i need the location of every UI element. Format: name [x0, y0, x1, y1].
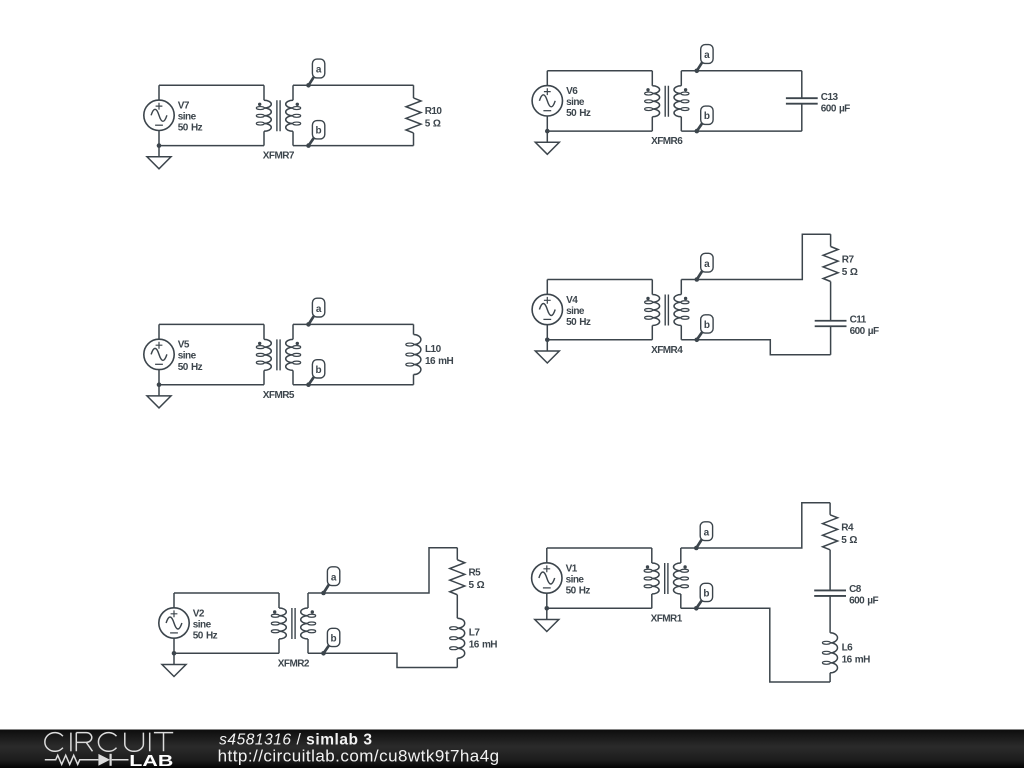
- svg-text:http://circuitlab.com/cu8wtk9t: http://circuitlab.com/cu8wtk9t7ha4g: [218, 746, 500, 765]
- svg-text:b: b: [331, 633, 337, 644]
- svg-text:5 Ω: 5 Ω: [425, 118, 441, 129]
- svg-text:LAB: LAB: [129, 753, 173, 768]
- svg-text:R5: R5: [469, 568, 482, 579]
- transformer XFMR6: [645, 71, 689, 147]
- wire: [413, 85, 415, 145]
- svg-text:V1: V1: [566, 563, 578, 574]
- svg-text:50 Hz: 50 Hz: [178, 123, 203, 134]
- wire: [308, 548, 457, 593]
- ground: [535, 129, 559, 155]
- svg-text:V7: V7: [178, 101, 190, 112]
- svg-text:R4: R4: [841, 523, 854, 534]
- inductor L6: [822, 633, 870, 673]
- resistor R7: [823, 247, 858, 282]
- node a flag: [694, 522, 713, 551]
- wire: [681, 503, 830, 548]
- transformer XFMR4: [645, 280, 689, 356]
- resistor R10: [406, 98, 442, 133]
- wire: [173, 593, 175, 653]
- svg-text:5 Ω: 5 Ω: [469, 580, 485, 591]
- node b flag: [306, 121, 325, 148]
- svg-text:L10: L10: [425, 344, 442, 355]
- ground: [147, 143, 171, 169]
- footer bar: [0, 730, 1024, 768]
- node a flag: [306, 59, 325, 88]
- wire: [829, 596, 831, 633]
- CircuitLab logo wordmark CIRCUIT: [45, 733, 173, 752]
- voltage source V7: [144, 100, 203, 134]
- svg-text:a: a: [316, 304, 322, 315]
- wire: [681, 340, 830, 355]
- resistor R4: [823, 515, 858, 550]
- wire: [456, 658, 458, 667]
- inductor L7: [450, 618, 498, 658]
- svg-text:R7: R7: [842, 254, 855, 265]
- svg-text:C8: C8: [849, 584, 862, 595]
- svg-text:V4: V4: [566, 295, 578, 306]
- wire: [547, 130, 652, 132]
- capacitor C11: [815, 315, 879, 338]
- svg-text:5 Ω: 5 Ω: [841, 535, 857, 546]
- ground: [147, 382, 171, 407]
- node b flag: [695, 315, 714, 342]
- wire: [308, 653, 457, 667]
- svg-text:5 Ω: 5 Ω: [842, 267, 858, 278]
- node b flag: [321, 628, 340, 655]
- wire: [830, 326, 832, 355]
- svg-text:50 Hz: 50 Hz: [566, 585, 591, 596]
- wire: [159, 145, 264, 147]
- wire: [681, 234, 830, 279]
- capacitor C8: [814, 584, 878, 607]
- svg-text:b: b: [704, 111, 710, 122]
- svg-text:b: b: [704, 320, 710, 331]
- node a flag: [321, 567, 340, 596]
- wire: [546, 71, 548, 131]
- node a flag: [695, 253, 714, 282]
- wire: [547, 279, 652, 281]
- svg-text:XFMR5: XFMR5: [263, 390, 295, 401]
- svg-text:sine: sine: [178, 112, 197, 123]
- wire: [174, 592, 279, 594]
- svg-text:L7: L7: [469, 628, 481, 639]
- voltage source V2: [159, 608, 218, 642]
- transformer XFMR7: [256, 85, 300, 161]
- svg-text:b: b: [316, 365, 322, 376]
- wire: [830, 234, 832, 246]
- svg-text:50 Hz: 50 Hz: [193, 630, 218, 641]
- svg-text:sine: sine: [566, 306, 585, 317]
- svg-text:a: a: [704, 527, 710, 538]
- svg-text:b: b: [703, 588, 709, 599]
- inductor L10: [406, 335, 454, 375]
- node a flag: [695, 45, 714, 74]
- transformer XFMR2: [271, 593, 315, 669]
- wire: [293, 85, 414, 145]
- svg-text:50 Hz: 50 Hz: [178, 362, 203, 373]
- svg-text:XFMR4: XFMR4: [651, 345, 683, 356]
- wire: [158, 324, 160, 384]
- svg-text:XFMR2: XFMR2: [278, 658, 310, 669]
- voltage source V5: [144, 339, 203, 373]
- wire: [547, 70, 652, 72]
- node b flag: [694, 583, 713, 610]
- wire: [293, 324, 414, 384]
- wire: [456, 595, 458, 618]
- svg-text:V6: V6: [566, 86, 578, 97]
- wire: [413, 324, 415, 384]
- wire: [829, 503, 831, 515]
- svg-text:sine: sine: [566, 574, 585, 585]
- wire: [546, 280, 548, 340]
- svg-text:XFMR1: XFMR1: [651, 613, 683, 624]
- svg-text:sine: sine: [566, 97, 585, 108]
- transformer XFMR5: [256, 324, 300, 400]
- voltage source V1: [532, 563, 591, 597]
- svg-text:600 µF: 600 µF: [850, 326, 879, 337]
- svg-text:16 mH: 16 mH: [425, 356, 453, 367]
- svg-text:a: a: [704, 259, 710, 270]
- resistor R5: [450, 560, 485, 595]
- svg-text:C13: C13: [821, 92, 839, 103]
- wire: [546, 548, 548, 608]
- svg-text:a: a: [704, 50, 710, 61]
- svg-text:a: a: [331, 572, 337, 583]
- ground: [535, 338, 559, 364]
- svg-text:V2: V2: [193, 608, 205, 619]
- wire: [829, 550, 831, 591]
- svg-text:50 Hz: 50 Hz: [566, 317, 591, 328]
- svg-text:XFMR6: XFMR6: [651, 136, 683, 147]
- node a flag: [306, 298, 325, 327]
- svg-text:16 mH: 16 mH: [842, 654, 870, 665]
- capacitor C13: [786, 92, 850, 115]
- wire: [456, 548, 458, 560]
- wire: [159, 384, 264, 386]
- node b flag: [695, 106, 714, 133]
- wire: [174, 652, 279, 654]
- svg-text:600 µF: 600 µF: [849, 596, 878, 607]
- svg-text:a: a: [316, 65, 322, 76]
- ground: [535, 606, 559, 632]
- svg-text:600 µF: 600 µF: [821, 103, 850, 114]
- transformer XFMR1: [644, 548, 688, 624]
- svg-text:C11: C11: [850, 315, 867, 326]
- wire: [681, 608, 830, 682]
- ground: [162, 651, 186, 677]
- wire: [547, 547, 652, 549]
- voltage source V4: [532, 294, 591, 328]
- svg-text:b: b: [316, 126, 322, 137]
- svg-text:sine: sine: [178, 351, 197, 362]
- svg-text:L6: L6: [842, 642, 854, 653]
- CircuitLab logo symbol and LAB: [45, 753, 174, 768]
- wire: [158, 85, 160, 145]
- voltage source V6: [532, 86, 591, 120]
- wire: [829, 673, 831, 682]
- svg-text:16 mH: 16 mH: [469, 640, 497, 651]
- wire: [801, 71, 803, 131]
- node b flag: [306, 360, 325, 387]
- svg-text:sine: sine: [193, 619, 212, 630]
- wire: [159, 84, 264, 86]
- wire: [547, 339, 652, 341]
- wire: [547, 607, 652, 609]
- svg-text:XFMR7: XFMR7: [263, 151, 295, 162]
- wire: [681, 71, 802, 131]
- wire: [830, 282, 832, 321]
- svg-text:R10: R10: [425, 106, 443, 117]
- wire: [159, 323, 264, 325]
- svg-text:V5: V5: [178, 340, 190, 351]
- svg-text:50 Hz: 50 Hz: [566, 108, 591, 119]
